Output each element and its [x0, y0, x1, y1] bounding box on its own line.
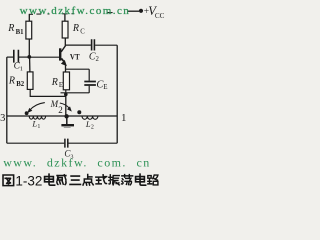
capacitor CE bottom stub	[88, 86, 90, 93]
node +Vcc terminal dot	[139, 9, 143, 13]
label L1	[31, 119, 40, 130]
node L2 polarity dot	[77, 110, 81, 114]
hanzi 电	[136, 174, 146, 185]
transistor VT base bar	[59, 48, 61, 60]
svg-text:1-32: 1-32	[15, 174, 42, 189]
capacitor C2	[92, 39, 95, 50]
svg-text:C: C	[80, 28, 85, 35]
resistor RB2 stub top	[29, 58, 31, 72]
wire collector to C2	[65, 44, 91, 46]
svg-text:3: 3	[0, 113, 5, 124]
svg-text:1: 1	[37, 124, 40, 130]
svg-text:R: R	[51, 77, 58, 88]
mutual coupling arrow left	[30, 103, 45, 111]
svg-text:1: 1	[121, 112, 127, 124]
svg-text:1: 1	[20, 66, 23, 73]
label L2	[85, 119, 94, 131]
wire bus down to tap node 2	[65, 93, 67, 116]
wire right vertical (node 1 riser)	[116, 45, 118, 143]
hanzi 感	[57, 175, 66, 185]
wire base node to transistor base	[31, 56, 59, 58]
resistor RB1 stub top	[28, 14, 30, 21]
label CE	[96, 80, 107, 92]
inductor L1	[29, 116, 45, 119]
svg-text:E: E	[103, 83, 107, 91]
capacitor CE	[84, 82, 96, 86]
wire tank top line	[7, 115, 117, 117]
svg-text:www.dzkfw.com.cn: www.dzkfw.com.cn	[20, 5, 131, 17]
capacitor C1 left wire	[7, 56, 13, 58]
svg-text:B2: B2	[16, 81, 25, 88]
wire +Vcc feed segment	[127, 10, 139, 12]
label RB1	[7, 23, 24, 36]
svg-text:2: 2	[91, 125, 94, 131]
hanzi 电	[45, 174, 55, 185]
wire RE bottom	[65, 90, 67, 93]
wire bottom rail left	[7, 142, 65, 144]
resistor RE	[63, 72, 69, 90]
wire top rail left segment (under watermark)	[29, 13, 113, 15]
wire emitter down to RE	[65, 65, 67, 73]
wire RB1 bottom to base node	[28, 39, 30, 57]
node tap junction dot	[64, 114, 68, 118]
mutual coupling arrow right	[60, 103, 70, 108]
svg-text:R: R	[72, 23, 79, 34]
ground at tap	[61, 116, 74, 127]
svg-text:CC: CC	[155, 12, 165, 20]
node L1 polarity dot	[25, 111, 29, 115]
wire RE/CE bottom bus	[61, 92, 90, 94]
capacitor CE top stub	[88, 69, 90, 81]
svg-text:R: R	[8, 76, 15, 87]
svg-text:VT: VT	[70, 51, 80, 61]
hanzi 路	[148, 175, 158, 185]
transistor VT emitter stroke with arrow	[61, 58, 63, 61]
label +Vcc	[144, 4, 165, 20]
hanzi 式	[96, 175, 107, 184]
hanzi 荡	[122, 175, 133, 185]
hanzi 振	[109, 175, 119, 185]
hanzi 三	[70, 176, 80, 184]
svg-text:2: 2	[58, 105, 63, 115]
caption 图1-32 电感三点式振荡电路	[3, 175, 14, 186]
wire RB2 bottom	[30, 89, 66, 96]
wire emitter to CE	[66, 68, 90, 70]
svg-text:www. dzkfw. com. cn: www. dzkfw. com. cn	[3, 156, 151, 170]
wire left vertical (node 3 riser)	[6, 57, 8, 143]
wire bottom rail right	[68, 142, 117, 144]
svg-text:2: 2	[96, 56, 100, 63]
label C2	[89, 51, 100, 63]
wire C1 to base node	[19, 56, 29, 58]
node base junction dot	[27, 55, 31, 59]
svg-text:R: R	[7, 23, 14, 34]
wire collector vertical to RC	[64, 38, 66, 46]
capacitor C3	[65, 139, 68, 148]
node emitter-bus junction dot	[64, 93, 68, 97]
resistor RB1	[26, 21, 32, 39]
hanzi 图	[3, 175, 14, 186]
svg-text:E: E	[59, 82, 63, 89]
svg-text:B1: B1	[16, 29, 25, 36]
resistor RC stub top	[64, 14, 66, 21]
resistor RC	[62, 21, 68, 38]
inductor L2	[82, 116, 98, 119]
capacitor C1	[14, 50, 19, 63]
label C1	[14, 62, 23, 73]
hanzi 点	[83, 175, 93, 186]
svg-text:M: M	[50, 99, 59, 109]
label RC	[72, 23, 85, 35]
wire C2 to right vertical	[95, 44, 117, 46]
label RE	[51, 77, 63, 89]
label C3	[64, 149, 73, 161]
transistor VT collector stroke	[61, 46, 65, 52]
resistor RB2	[27, 72, 33, 90]
label RB2	[8, 76, 25, 89]
